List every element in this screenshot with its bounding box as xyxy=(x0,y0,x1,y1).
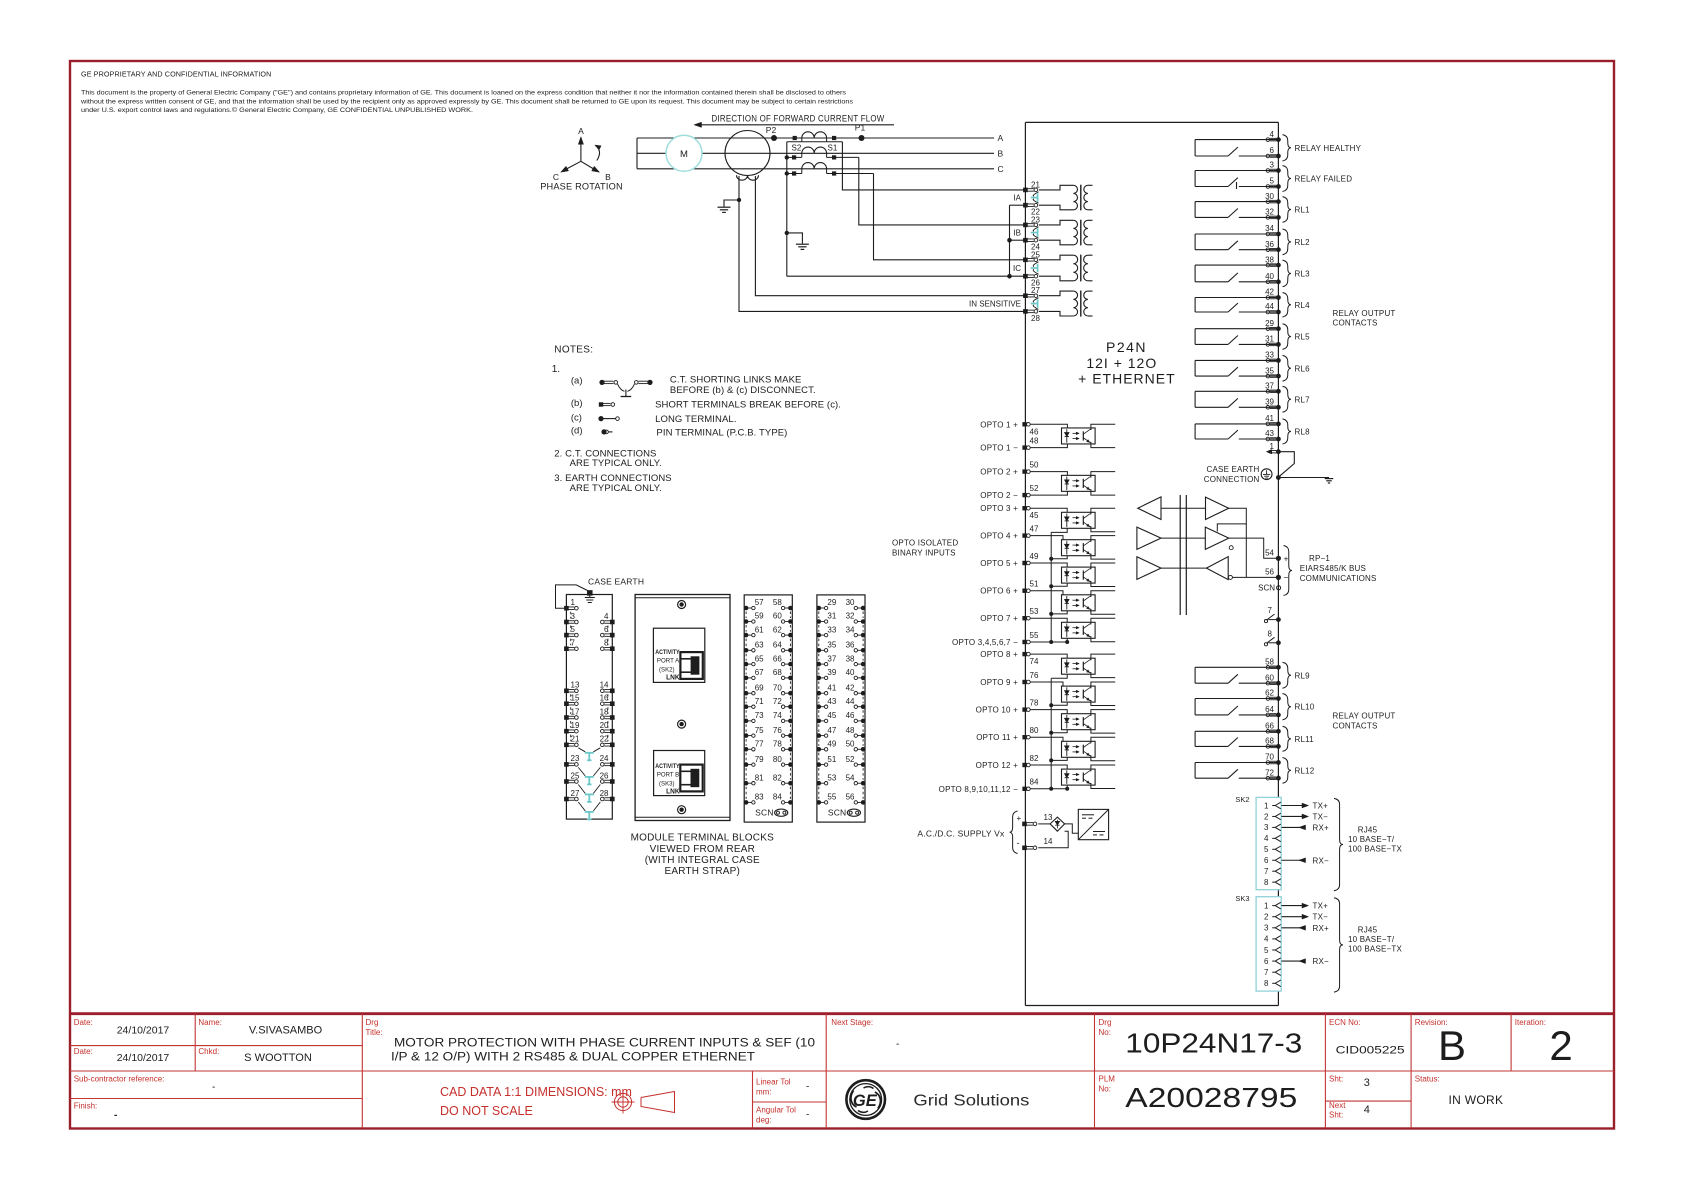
toroid ground spur xyxy=(737,198,741,202)
svg-text:6: 6 xyxy=(1264,957,1269,966)
terminal 6 xyxy=(1270,154,1277,156)
block dashed links xyxy=(746,612,790,799)
svg-text:3: 3 xyxy=(1264,823,1269,832)
wire IN+ to terminal 27 xyxy=(755,176,1025,296)
port B socket box xyxy=(654,751,705,796)
svg-text:84: 84 xyxy=(1030,778,1039,787)
relay contact RL7 xyxy=(1195,391,1278,407)
svg-text:60: 60 xyxy=(1265,673,1274,682)
RS485 buffer row1 left xyxy=(1138,497,1161,520)
terminal 28 xyxy=(1023,309,1028,314)
svg-text:43: 43 xyxy=(827,697,836,706)
pin 3 SK2 xyxy=(1264,823,1281,832)
svg-text:48: 48 xyxy=(1030,436,1039,445)
svg-text:5: 5 xyxy=(1264,946,1269,955)
CT phase C xyxy=(802,163,827,169)
svg-text:MODULE TERMINAL BLOCKS: MODULE TERMINAL BLOCKS xyxy=(631,833,774,844)
svg-text:49: 49 xyxy=(1030,552,1039,561)
CT phase A xyxy=(802,132,827,138)
signal RX− SK3 xyxy=(1282,957,1330,966)
svg-text:7: 7 xyxy=(571,639,576,648)
relay contact RELAY FAILED xyxy=(1195,171,1278,190)
svg-text:-: - xyxy=(114,1110,117,1121)
wire rx enable xyxy=(1245,524,1247,578)
svg-text:17: 17 xyxy=(571,707,580,716)
svg-text:RJ45: RJ45 xyxy=(1358,826,1378,835)
svg-text:RX+: RX+ xyxy=(1313,924,1330,933)
terminal 66 xyxy=(1270,729,1277,731)
svg-text:under U.S. export control laws: under U.S. export control laws and regul… xyxy=(81,106,473,114)
svg-text:Status:: Status: xyxy=(1415,1075,1440,1084)
plate screw xyxy=(678,601,686,609)
relay contact RL5 xyxy=(1195,329,1278,345)
svg-text:10 BASE−T/: 10 BASE−T/ xyxy=(1348,835,1395,844)
terminal 33 xyxy=(1270,358,1277,360)
terminal 46 OPTO 1+ xyxy=(1022,422,1026,426)
wire IB+ to terminal 23 xyxy=(859,157,1026,225)
wire to terminal 54 xyxy=(1229,538,1279,558)
wire IC+ to terminal 25 xyxy=(874,174,1026,260)
svg-text:52: 52 xyxy=(1030,484,1039,493)
relay contact RL11 xyxy=(1195,731,1278,746)
block dashed links xyxy=(819,612,863,799)
svg-text:74: 74 xyxy=(773,711,782,720)
svg-text:V.SIVASAMBO: V.SIVASAMBO xyxy=(249,1025,323,1037)
wire OPTO 8+ xyxy=(1030,654,1067,658)
svg-text:Sub-contractor reference:: Sub-contractor reference: xyxy=(74,1075,165,1084)
svg-text:C: C xyxy=(553,172,559,182)
pin 5 SK3 xyxy=(1264,946,1281,955)
block1 shorting link xyxy=(578,767,600,784)
svg-text:RP−1: RP−1 xyxy=(1309,554,1330,563)
terminal 47 OPTO 4+ xyxy=(1022,533,1026,537)
svg-text:B: B xyxy=(998,148,1004,158)
svg-text:OPTO 1 +: OPTO 1 + xyxy=(980,420,1018,429)
svg-text:73: 73 xyxy=(755,711,764,720)
svg-text:66: 66 xyxy=(773,654,782,663)
svg-text:13: 13 xyxy=(571,681,580,690)
svg-text:76: 76 xyxy=(773,726,782,735)
block terminal 29 xyxy=(817,606,822,611)
svg-text:40: 40 xyxy=(846,668,855,677)
svg-text:+: + xyxy=(1017,814,1022,823)
svg-text:A: A xyxy=(578,126,584,136)
svg-text:IN WORK: IN WORK xyxy=(1449,1093,1504,1107)
opto output wires OPTO 8 xyxy=(1090,654,1115,660)
brace RS485 xyxy=(1284,546,1293,596)
wire row1 xyxy=(1161,507,1206,509)
terminal 8 xyxy=(1264,629,1280,646)
svg-text:14: 14 xyxy=(1044,837,1053,846)
svg-text:8: 8 xyxy=(1264,979,1269,988)
block terminal 62 xyxy=(788,633,793,638)
CT phase B xyxy=(802,147,827,153)
opto coupler OPTO 12 xyxy=(1062,769,1096,785)
svg-text:75: 75 xyxy=(755,726,764,735)
svg-text:GE PROPRIETARY AND CONFIDENTIA: GE PROPRIETARY AND CONFIDENTIAL INFORMAT… xyxy=(81,70,271,79)
svg-text:RL2: RL2 xyxy=(1295,238,1311,247)
block1 terminal 14 xyxy=(610,689,615,694)
opto output wires OPTO 2 xyxy=(1090,472,1115,477)
svg-text:10P24N17-3: 10P24N17-3 xyxy=(1125,1028,1302,1059)
block terminal 71 xyxy=(744,704,749,709)
block terminal 75 xyxy=(744,733,749,738)
relay contact RL10 xyxy=(1195,699,1278,715)
input transformer IA xyxy=(1039,185,1074,190)
svg-text:35: 35 xyxy=(827,641,836,650)
opto cathode bus xyxy=(1050,678,1052,789)
svg-text:+: + xyxy=(1284,554,1289,564)
svg-text:48: 48 xyxy=(846,726,855,735)
svg-text:21: 21 xyxy=(571,735,580,744)
svg-text:BINARY INPUTS: BINARY INPUTS xyxy=(892,549,956,558)
terminal 74 OPTO 8+ xyxy=(1022,652,1026,656)
pin 2 SK2 xyxy=(1264,812,1281,821)
svg-text:49: 49 xyxy=(827,740,836,749)
svg-text:A20028795: A20028795 xyxy=(1125,1082,1297,1113)
block1 terminal 5 xyxy=(564,633,569,638)
terminal 52 OPTO 2- xyxy=(1022,493,1026,497)
svg-text:34: 34 xyxy=(1265,224,1274,233)
svg-text:34: 34 xyxy=(846,625,855,634)
svg-text:55: 55 xyxy=(1030,631,1039,640)
wire OPTO 1- xyxy=(1030,444,1067,448)
wire OPTO 7+ xyxy=(1030,618,1067,622)
svg-text:13: 13 xyxy=(1044,813,1053,822)
RS485 buffer row2 left xyxy=(1137,527,1161,549)
svg-text:M: M xyxy=(680,149,688,160)
motor terminal bus xyxy=(636,138,638,169)
svg-text:RL5: RL5 xyxy=(1295,333,1311,342)
opto coupler OPTO 3 xyxy=(1062,512,1096,528)
svg-text:OPTO 12 +: OPTO 12 + xyxy=(976,761,1018,770)
terminal 49 OPTO 5+ xyxy=(1022,561,1026,565)
svg-text:39: 39 xyxy=(1265,398,1274,407)
terminal 25 xyxy=(1023,258,1028,263)
svg-text:RELAY HEALTHY: RELAY HEALTHY xyxy=(1295,144,1362,153)
svg-text:Chkd:: Chkd: xyxy=(198,1047,219,1056)
svg-text:23: 23 xyxy=(571,754,580,763)
block terminal 83 xyxy=(744,800,749,805)
svg-text:58: 58 xyxy=(1265,658,1274,667)
block terminal 76 xyxy=(788,733,793,738)
svg-text:29: 29 xyxy=(1265,319,1274,328)
svg-text:53: 53 xyxy=(1030,607,1039,616)
block terminal 39 xyxy=(817,676,822,681)
block terminal 37 xyxy=(817,662,822,667)
pin 2 SK3 xyxy=(1264,913,1281,922)
svg-text:24/10/2017: 24/10/2017 xyxy=(117,1025,170,1037)
wire OPTO 2- xyxy=(1030,491,1067,495)
svg-text:B: B xyxy=(1438,1022,1466,1069)
signal RX+ SK3 xyxy=(1282,924,1330,933)
svg-text:EARTH STRAP): EARTH STRAP) xyxy=(665,866,741,877)
svg-text:TX−: TX− xyxy=(1313,812,1329,821)
svg-text:OPTO 5 +: OPTO 5 + xyxy=(980,559,1018,568)
svg-text:COMMUNICATIONS: COMMUNICATIONS xyxy=(1300,574,1377,583)
svg-text:45: 45 xyxy=(827,711,836,720)
block1 shorting link xyxy=(578,748,600,761)
block1 terminal 17 xyxy=(564,715,569,720)
svg-text:36: 36 xyxy=(846,641,855,650)
phase rotation symbol xyxy=(540,126,623,192)
pin 4 SK2 xyxy=(1264,834,1281,843)
pin 7 SK2 xyxy=(1264,867,1281,876)
phase bus B xyxy=(637,152,994,154)
block terminal 78 xyxy=(788,747,793,752)
svg-text:P24N: P24N xyxy=(1106,339,1147,355)
svg-text:56: 56 xyxy=(846,793,855,802)
svg-text:OPTO 9 +: OPTO 9 + xyxy=(980,678,1018,687)
svg-text:(SK3): (SK3) xyxy=(659,780,675,787)
svg-text:40: 40 xyxy=(1265,272,1274,281)
wire OPTO 2+ xyxy=(1030,472,1067,476)
wire IA+ to terminal 21 xyxy=(842,142,1025,190)
wire to terminal 22 xyxy=(1010,204,1026,206)
opto coupler OPTO 5 xyxy=(1062,567,1096,583)
svg-text:36: 36 xyxy=(1265,240,1274,249)
svg-text:VIEWED FROM REAR: VIEWED FROM REAR xyxy=(650,844,755,855)
terminal 80 OPTO 11+ xyxy=(1022,735,1026,739)
svg-text:4: 4 xyxy=(1364,1104,1370,1116)
terminal SCN xyxy=(1277,586,1281,590)
svg-text:27: 27 xyxy=(1031,286,1040,295)
terminal 58 xyxy=(1270,665,1277,667)
svg-text:32: 32 xyxy=(1265,208,1274,217)
svg-text:OPTO 11 +: OPTO 11 + xyxy=(976,733,1018,742)
block terminal 35 xyxy=(817,648,822,653)
svg-text:23: 23 xyxy=(1031,215,1040,224)
block terminal 38 xyxy=(861,662,866,667)
terminal 40 xyxy=(1270,280,1277,282)
block terminal 43 xyxy=(817,704,822,709)
title block top border xyxy=(70,1012,1614,1015)
svg-text:C: C xyxy=(998,164,1004,174)
svg-text:44: 44 xyxy=(1265,302,1274,311)
block1 terminal 7 xyxy=(564,646,569,651)
svg-text:61: 61 xyxy=(755,625,764,634)
block1 terminal 8 xyxy=(610,646,615,651)
svg-text:39: 39 xyxy=(827,668,836,677)
svg-text:4: 4 xyxy=(1270,130,1275,139)
svg-text:SCN: SCN xyxy=(1258,584,1275,593)
phase bus C xyxy=(637,168,994,170)
block terminal 57 xyxy=(744,606,749,611)
svg-text:47: 47 xyxy=(1030,524,1039,533)
svg-text:PIN TERMINAL (P.C.B. TYPE): PIN TERMINAL (P.C.B. TYPE) xyxy=(656,427,787,438)
svg-text:CID005225: CID005225 xyxy=(1336,1045,1405,1057)
svg-text:OPTO 10 +: OPTO 10 + xyxy=(976,706,1018,715)
signal RX− SK2 xyxy=(1282,856,1330,865)
opto output wires OPTO 7 xyxy=(1090,618,1115,624)
svg-text:58: 58 xyxy=(773,598,782,607)
svg-text:28: 28 xyxy=(1031,314,1040,323)
svg-text:68: 68 xyxy=(1265,737,1274,746)
svg-text:5: 5 xyxy=(1270,177,1275,186)
svg-text:S WOOTTON: S WOOTTON xyxy=(244,1052,312,1064)
terminal 72 xyxy=(1270,776,1277,778)
block terminal 79 xyxy=(744,762,749,767)
svg-text:OPTO 8 +: OPTO 8 + xyxy=(980,650,1018,659)
block1 terminal 1 xyxy=(564,606,569,611)
terminal 35 xyxy=(1270,374,1277,376)
svg-text:3: 3 xyxy=(571,612,576,621)
terminal 44 xyxy=(1270,310,1277,312)
svg-text:OPTO ISOLATED: OPTO ISOLATED xyxy=(892,539,958,548)
shorting link 23/24 xyxy=(1037,228,1039,236)
pin 6 SK2 xyxy=(1264,856,1281,865)
svg-text:27: 27 xyxy=(571,789,580,798)
block terminal 36 xyxy=(861,648,866,653)
block terminal 42 xyxy=(861,691,866,696)
svg-text:30: 30 xyxy=(1265,192,1274,201)
svg-text:64: 64 xyxy=(773,641,782,650)
wire IN- to terminal 28 xyxy=(739,176,1025,311)
svg-text:12I + 12O: 12I + 12O xyxy=(1086,355,1157,371)
RS485 isolation barrier xyxy=(1179,495,1181,615)
wire OPTO 1+ xyxy=(1030,424,1067,428)
svg-text:IN SENSITIVE: IN SENSITIVE xyxy=(969,300,1021,309)
block1 terminal 25 xyxy=(564,779,569,784)
block terminal 51 xyxy=(817,762,822,767)
svg-text:52: 52 xyxy=(846,755,855,764)
wire OPTO 3+ xyxy=(1030,508,1067,512)
block terminal 80 xyxy=(788,762,793,767)
wire OPTO 6+ xyxy=(1030,591,1063,595)
svg-text:59: 59 xyxy=(755,612,764,621)
shorting link 27/28 xyxy=(1037,299,1039,307)
svg-text:CONTACTS: CONTACTS xyxy=(1333,319,1378,328)
svg-text:1: 1 xyxy=(1270,442,1275,451)
signal TX+ SK2 xyxy=(1282,802,1329,811)
terminal 23 xyxy=(1023,223,1028,228)
svg-text:RL12: RL12 xyxy=(1295,766,1315,775)
svg-text:RELAY OUTPUT: RELAY OUTPUT xyxy=(1333,309,1396,318)
svg-text:67: 67 xyxy=(755,668,764,677)
case earth strap wire xyxy=(556,585,588,608)
relay contact RL2 xyxy=(1195,234,1278,250)
svg-text:Finish:: Finish: xyxy=(74,1102,98,1111)
terminal 43 xyxy=(1270,437,1277,439)
terminal 34 xyxy=(1270,232,1277,234)
svg-text:14: 14 xyxy=(600,681,609,690)
block terminal 33 xyxy=(817,633,822,638)
svg-text:76: 76 xyxy=(1030,671,1039,680)
block1 shorting link xyxy=(578,785,600,802)
case earth stud xyxy=(587,590,593,596)
svg-text:RL1: RL1 xyxy=(1295,206,1311,215)
svg-text:PLM: PLM xyxy=(1099,1075,1116,1084)
brace RL11 xyxy=(1283,726,1292,751)
case earth ground xyxy=(1278,477,1329,479)
svg-text:RELAY FAILED: RELAY FAILED xyxy=(1295,175,1353,184)
svg-text:TX+: TX+ xyxy=(1313,802,1329,811)
svg-text:66: 66 xyxy=(1265,722,1274,731)
block1 terminal 23 xyxy=(564,762,569,767)
svg-text:Sht:: Sht: xyxy=(1329,1111,1343,1120)
terminal 42 xyxy=(1270,295,1277,297)
terminal 1 xyxy=(1269,450,1277,452)
svg-text:31: 31 xyxy=(827,612,836,621)
note symbol a xyxy=(599,380,652,397)
brace RL2 xyxy=(1283,229,1292,255)
terminal 84 common negative xyxy=(1022,787,1026,791)
svg-text:82: 82 xyxy=(773,773,782,782)
svg-text:84: 84 xyxy=(773,793,782,802)
svg-text:CONNECTION: CONNECTION xyxy=(1204,475,1260,484)
terminal 78 OPTO 10+ xyxy=(1022,707,1026,711)
wire to terminal 56 xyxy=(1232,576,1278,578)
svg-text:(c): (c) xyxy=(571,412,582,423)
svg-text:1: 1 xyxy=(571,598,576,607)
svg-text:100 BASE−TX: 100 BASE−TX xyxy=(1348,845,1402,854)
RJ45 jack B xyxy=(680,765,702,792)
svg-text:A.C./D.C. SUPPLY Vx: A.C./D.C. SUPPLY Vx xyxy=(917,829,1005,839)
input transformer IB xyxy=(1039,220,1074,225)
svg-text:62: 62 xyxy=(773,625,782,634)
svg-text:2: 2 xyxy=(1549,1022,1572,1069)
opto coupler OPTO 7 xyxy=(1062,622,1096,638)
svg-text:S2: S2 xyxy=(792,144,802,153)
PSU converter box xyxy=(1078,809,1108,839)
svg-text:7: 7 xyxy=(1264,968,1269,977)
svg-text:RL3: RL3 xyxy=(1295,269,1311,278)
svg-text:I/P & 12 O/P) WITH 2 RS485 & D: I/P & 12 O/P) WITH 2 RS485 & DUAL COPPER… xyxy=(391,1052,755,1064)
opto output wires OPTO 1 xyxy=(1090,424,1115,429)
terminal 5 xyxy=(1270,184,1277,186)
block terminal 48 xyxy=(861,733,866,738)
svg-text:OPTO 3,4,5,6,7 −: OPTO 3,4,5,6,7 − xyxy=(952,638,1018,647)
svg-text:C.T. SHORTING LINKS MAKE: C.T. SHORTING LINKS MAKE xyxy=(670,375,802,386)
svg-text:RX+: RX+ xyxy=(1313,823,1330,832)
svg-text:46: 46 xyxy=(846,711,855,720)
svg-text:4: 4 xyxy=(604,612,609,621)
svg-text:80: 80 xyxy=(773,755,782,764)
svg-text:33: 33 xyxy=(1265,351,1274,360)
block terminal 69 xyxy=(744,691,749,696)
relay case outline P24N xyxy=(1025,121,1278,123)
terminal 55 common negative xyxy=(1022,640,1026,644)
svg-text:42: 42 xyxy=(1265,288,1274,297)
terminal 3 xyxy=(1270,168,1277,170)
svg-text:56: 56 xyxy=(1265,568,1274,577)
svg-text:RL8: RL8 xyxy=(1295,427,1311,436)
core balance CT secondary winding xyxy=(737,175,759,180)
svg-text:SHORT TERMINALS BREAK BEFORE (: SHORT TERMINALS BREAK BEFORE (c). xyxy=(655,399,841,410)
pin 3 SK3 xyxy=(1264,924,1281,933)
svg-text:without the express written co: without the express written consent of G… xyxy=(80,98,854,105)
signal RX+ SK2 xyxy=(1282,823,1330,832)
block terminal 46 xyxy=(861,719,866,724)
svg-text:70: 70 xyxy=(1265,753,1274,762)
wire row3 xyxy=(1161,567,1206,569)
svg-text:Drg: Drg xyxy=(1099,1018,1112,1027)
svg-text:OPTO 8,9,10,11,12 −: OPTO 8,9,10,11,12 − xyxy=(939,785,1018,794)
svg-text:51: 51 xyxy=(827,755,836,764)
opto output wires OPTO 10 xyxy=(1090,710,1115,716)
terminal 26 xyxy=(1023,274,1028,279)
note symbol d xyxy=(601,429,612,434)
brace RL8 xyxy=(1283,419,1292,444)
terminal 4 xyxy=(1270,137,1277,139)
svg-text:-: - xyxy=(1017,838,1020,848)
block1 terminal 15 xyxy=(564,701,569,706)
relay contact RL6 xyxy=(1195,360,1278,376)
svg-text:53: 53 xyxy=(827,773,836,782)
wire OPTO 11+ xyxy=(1030,737,1063,741)
relay contact RL4 xyxy=(1195,298,1278,313)
block1 terminal 20 xyxy=(610,729,615,734)
